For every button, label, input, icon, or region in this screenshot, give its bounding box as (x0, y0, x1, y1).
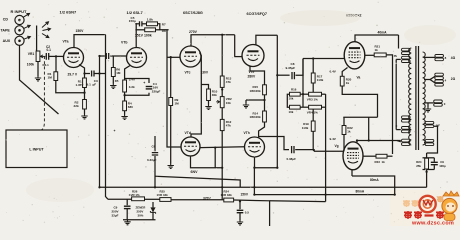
wire bias chain from rail (221, 35, 223, 76)
wire AUX shield down-diagonal (20, 45, 59, 114)
svg-text:150V: 150V (76, 29, 85, 33)
svg-text:Vg: Vg (335, 144, 339, 148)
wire C3 to vertical feeds (95, 73, 106, 75)
connector primary P5 (402, 139, 411, 142)
svg-text:40mA: 40mA (378, 30, 388, 34)
svg-text:C: C (396, 124, 398, 128)
resistor R25 1W 33k (224, 198, 234, 202)
resistor R3 cathode 3.3k (123, 80, 127, 92)
wire VTd cathode coupling to VTh grid (201, 146, 245, 149)
wire R19 to C7 node (312, 131, 314, 150)
svg-text:1k: 1k (382, 160, 386, 164)
svg-text:6CG7/6FQ7: 6CG7/6FQ7 (247, 12, 267, 16)
potentiometer VR2 10k (220, 97, 224, 108)
svg-text:R16: R16 (291, 88, 297, 92)
wire VTe grid (234, 56, 242, 58)
wire VTh cathode to node (254, 157, 256, 168)
zener diode 250V (152, 202, 154, 207)
ground below R9 (168, 164, 174, 169)
tube VTh triode lower driver (245, 137, 265, 157)
svg-text:33µF: 33µF (112, 214, 119, 218)
trimmer VR3 1% row1 right (309, 92, 322, 96)
wire divider feed column (325, 94, 327, 202)
capacitor C10 33uF 250V filter (126, 199, 128, 205)
wire B+ drop to primary (398, 35, 400, 49)
watermark logo circle (419, 196, 435, 212)
ground VTe divider (245, 100, 247, 103)
svg-text:0.4V: 0.4V (330, 69, 337, 73)
resistor R17 110k (312, 59, 314, 74)
svg-text:1k: 1k (346, 81, 350, 85)
svg-text:1/2 6SL7: 1/2 6SL7 (127, 10, 144, 15)
resistor R8 100k plate (145, 28, 156, 32)
svg-text:R INPUT: R INPUT (11, 9, 28, 14)
wire VTh grid branch down (214, 148, 216, 168)
wire NFB long bus (100, 186, 427, 188)
tube VTb triode (127, 48, 147, 68)
resistor R7 feedback (142, 23, 146, 25)
tube VTc triode (180, 46, 201, 67)
potentiometer VR1 100k (36, 51, 40, 62)
resistor R12 47k (220, 119, 224, 130)
ground below C11 (237, 220, 243, 225)
svg-text:0.38µF: 0.38µF (287, 157, 297, 161)
wire VTa plate to 150V rail (74, 35, 106, 48)
svg-text:2Ω: 2Ω (451, 77, 456, 81)
svg-text:VTa: VTa (63, 40, 69, 44)
wire VR2 to R12 (221, 108, 223, 120)
svg-text:3.3k: 3.3k (129, 85, 135, 89)
secondary tap 0 common (424, 102, 434, 104)
svg-text:1VR 1%: 1VR 1% (129, 193, 140, 197)
wire VTb grid line with C4 (100, 55, 105, 57)
wire R1 to R2 (84, 88, 86, 100)
wire R17 to divider row1 (312, 83, 314, 92)
wire VTd cathode to bias node (191, 156, 223, 168)
wire rail R26-R24 (145, 198, 160, 200)
svg-text:6SC7/6J8G: 6SC7/6J8G (183, 11, 203, 15)
watermark text weiku yixia (403, 200, 410, 207)
resistor R9 1M (170, 57, 172, 97)
transformer T1 core (415, 46, 417, 150)
svg-text:VTh: VTh (244, 131, 250, 135)
junction dots (221, 34, 223, 36)
svg-text:100k: 100k (27, 63, 35, 67)
ground below R2 (81, 114, 87, 119)
wire R10 tap (201, 85, 208, 90)
wire VTg cathode sense loop (351, 170, 353, 176)
wire top rail 270V segment (191, 34, 235, 36)
jack AUX (15, 36, 24, 45)
wire ground bus bottom (123, 219, 156, 221)
tube VTa triode (64, 48, 84, 68)
svg-text:+: + (114, 129, 116, 133)
wire feed column x303 (302, 59, 304, 108)
svg-text:150V: 150V (241, 192, 249, 196)
svg-text:L INPUT: L INPUT (29, 148, 44, 152)
svg-text:30%: 30% (138, 214, 144, 218)
resistor R19 110k (312, 109, 314, 121)
wire VTe grid drop from rail end (234, 35, 236, 57)
svg-text:0.1: 0.1 (47, 48, 52, 52)
svg-text:0.5: 0.5 (245, 210, 250, 214)
svg-text:C6: C6 (152, 145, 156, 149)
resistor R4 680 (123, 101, 127, 111)
connector primary P4 (402, 127, 411, 130)
svg-text:110k: 110k (317, 78, 324, 82)
resistor R14 1W 100k (263, 111, 267, 122)
svg-text:270V: 270V (189, 30, 198, 34)
svg-text:R23: R23 (375, 160, 381, 164)
wire rail right section (234, 200, 270, 226)
wire tube2 grid line (314, 150, 344, 152)
wire R4 to ground (124, 111, 126, 115)
svg-text:VTb: VTb (121, 41, 127, 45)
wire vertical feed A to NFB bus (99, 56, 101, 187)
ground secondary common (427, 103, 429, 107)
ground below R10 (205, 105, 211, 110)
svg-text:VR1: VR1 (28, 52, 35, 56)
selector switch S1 contacts (42, 22, 49, 28)
resistor R15 1W 100k (263, 85, 267, 95)
wire supply rail 370V chain (108, 198, 132, 200)
svg-text:VR3 1%: VR3 1% (307, 97, 318, 101)
wire C6 down to NFB bus (154, 156, 156, 187)
svg-text:TAPE: TAPE (1, 29, 11, 33)
svg-text:R7: R7 (162, 22, 166, 26)
wire NFB slant segment (155, 176, 240, 187)
resistor R16 10k row1 left (290, 92, 301, 96)
svg-text:80mA: 80mA (370, 178, 379, 182)
svg-text:VTd: VTd (185, 131, 191, 135)
wire R2 to ground (84, 109, 86, 114)
svg-text:1VR 33k: 1VR 33k (221, 193, 233, 197)
resistor Rs1 1k screen (374, 53, 386, 57)
tube VTf 6550 upper (344, 42, 365, 69)
box L INPUT channel (6, 130, 67, 168)
wire VTf cathode to R21 (342, 68, 347, 77)
resistor R26 1W 1k (132, 197, 145, 201)
svg-text:151V 100k: 151V 100k (135, 34, 152, 38)
svg-text:1W100k: 1W100k (250, 89, 262, 93)
svg-text:Pb: Pb (394, 54, 398, 58)
svg-text:1.35V: 1.35V (76, 83, 84, 87)
wire rail stub up to divider feed (270, 200, 326, 203)
wire drop to plate line (368, 117, 370, 140)
wire VTf plate to top (355, 35, 399, 42)
scan smudges (280, 10, 360, 26)
wire ladder left link (287, 94, 289, 107)
svg-text:6NV: 6NV (191, 170, 199, 174)
resistor R2 22k (83, 100, 87, 110)
capacitor C5 150p (135, 23, 139, 25)
transformer T1 secondary winding (423, 52, 426, 145)
svg-text:R5: R5 (115, 79, 119, 83)
wire VTa cathode (79, 65, 85, 79)
resistor R24f 25k NFB (426, 153, 428, 158)
resistor R1 cathode (83, 78, 87, 88)
wire cathode to C3 (85, 73, 91, 75)
secondary lower tap (425, 139, 434, 142)
svg-text:1W100k: 1W100k (250, 115, 262, 119)
wire NFB tap down (427, 126, 438, 153)
capacitor C3 9.1uF cathode bypass (92, 71, 94, 77)
svg-text:9.4V: 9.4V (330, 137, 337, 141)
wire R12 down to 370V rail (221, 131, 223, 200)
resistor Rg1 1M grid (55, 56, 57, 71)
ground below R4 (121, 115, 127, 120)
svg-text:680: 680 (128, 105, 133, 109)
capacitor C7 0.38uF (292, 146, 294, 153)
jack CD (15, 15, 24, 24)
trimmer VR4 1% row2 right (309, 105, 322, 109)
wire node down to screen bus (253, 168, 255, 195)
resistor R23 screen lower (363, 155, 376, 157)
wire screen resistor R-s1 (365, 54, 374, 56)
svg-text:30k: 30k (212, 93, 217, 97)
svg-text:10k: 10k (289, 110, 294, 114)
svg-text:1.8k: 1.8k (147, 18, 153, 22)
svg-text:1/2 6SN7: 1/2 6SN7 (60, 10, 77, 15)
wire VTe plate arch to column (256, 35, 277, 45)
resistor R21 10 cathode sense (340, 76, 344, 86)
wire stage2 out down to VTd grid (167, 30, 181, 147)
wire tube1 grid line (303, 58, 344, 60)
wire rail R24-R25 (171, 199, 224, 201)
svg-text:AUX: AUX (3, 39, 11, 43)
secondary tap 16 ohm (424, 56, 435, 58)
wire NFB network to buses (423, 169, 435, 171)
svg-text:220µF: 220µF (152, 89, 161, 93)
svg-text:110k: 110k (302, 126, 309, 130)
tube VTd triode (181, 137, 200, 156)
svg-text:150p: 150p (129, 19, 136, 23)
svg-text:370V: 370V (203, 196, 212, 200)
wire selector common to VR1 (36, 26, 38, 52)
wire screen bus (254, 194, 394, 196)
svg-text:VTc: VTc (185, 71, 191, 75)
svg-text:1k: 1k (375, 48, 379, 52)
wire VR1 bottom (37, 62, 39, 77)
wire R9 down to ground (170, 106, 172, 164)
svg-text:47k: 47k (226, 80, 231, 84)
connector primary P1 (402, 48, 411, 51)
svg-text:1M: 1M (175, 101, 180, 105)
svg-text:1M: 1M (116, 71, 121, 75)
ground bottom filter (124, 220, 130, 225)
svg-text:10k: 10k (226, 101, 231, 105)
svg-text:R2-1: R2-1 (43, 63, 50, 67)
svg-text:22k: 22k (74, 104, 79, 108)
tube VTe triode (242, 45, 264, 67)
svg-text:1M: 1M (48, 76, 53, 80)
resistor R24 1W 43k (160, 198, 171, 202)
svg-text:29.7 V: 29.7 V (68, 72, 78, 76)
svg-text:C8: C8 (291, 62, 295, 66)
wire R13 to VR2 (221, 87, 223, 96)
tube VTg 6550 lower (343, 142, 363, 170)
watermark mascot (443, 191, 459, 196)
svg-text:VR4 1%: VR4 1% (307, 110, 318, 114)
wire VTc cathode down to VTd plate (191, 53, 201, 138)
wire R10 to ground (208, 101, 210, 105)
svg-text:R8: R8 (162, 29, 166, 33)
svg-text:CD: CD (3, 17, 9, 21)
svg-text:47k: 47k (226, 124, 231, 128)
wire VTb cathode chain (125, 66, 130, 81)
ground VR1 (35, 76, 41, 81)
svg-text:280V: 280V (248, 75, 257, 79)
svg-text:10k: 10k (289, 97, 294, 101)
wire R3 to R4 junction (124, 92, 126, 101)
wire screen link line (343, 116, 377, 118)
wire lower node horizontal (254, 167, 277, 169)
wire C7 to grid node (295, 149, 314, 151)
wire VTc grid tap (167, 56, 180, 58)
svg-text:4Ω: 4Ω (451, 56, 456, 60)
connector primary P3 (402, 116, 411, 119)
resistor R6 1M grid leak (112, 56, 114, 68)
wire stage2 network right node (158, 24, 169, 30)
resistor R22 1k grid2 (342, 126, 346, 135)
secondary NFB tap (425, 121, 434, 124)
wire VTe cathode to R15 (250, 66, 265, 85)
resistor R13 47k (220, 76, 224, 87)
ganged dashed link to L channel (41, 56, 44, 130)
ground below R6 (112, 77, 114, 84)
wire R21 zigzag down (342, 86, 377, 117)
electrolytic C4 220uF bypass (125, 93, 149, 95)
wire VTh plate tap to C7 (259, 137, 289, 150)
wire Rg1 to cathode return (56, 81, 85, 93)
secondary tap 8 ohm (424, 76, 435, 79)
wire VTc plate to rail (190, 35, 192, 46)
svg-text:1k: 1k (347, 130, 351, 134)
wire VTg plate line to primary (357, 140, 401, 142)
connector primary P2 (402, 56, 411, 59)
wire C8 riser to grid line (296, 59, 304, 76)
capacitor C6 0.33uF (154, 136, 156, 151)
svg-text:80mA: 80mA (356, 190, 365, 194)
wire stage4 plate column (276, 35, 278, 168)
svg-text:25k: 25k (416, 164, 421, 168)
svg-text:µF: µF (93, 83, 97, 87)
svg-text:9.35µF: 9.35µF (286, 66, 296, 70)
capacitor C8 9.35uF (292, 72, 294, 79)
wire R14 down to VTh plate (259, 122, 265, 137)
svg-text:www.dzsc.com: www.dzsc.com (411, 221, 454, 226)
wire C2 to VTa grid (49, 55, 64, 57)
resistor R10 30k (207, 89, 211, 101)
jack TAPE (15, 26, 24, 35)
svg-text:9.1: 9.1 (87, 83, 92, 87)
capacitor C9 100p NFB (431, 162, 438, 164)
wire vertical feed to lower supply rail (106, 35, 109, 200)
svg-text:+: + (143, 81, 145, 85)
resistor R18 10k row2 left (290, 105, 301, 109)
capacitor C2 0.1uF coupling (44, 55, 47, 57)
wire C8 branch (277, 74, 289, 76)
wire R15 to R14 (264, 95, 266, 111)
capacitor C11 filter second (239, 202, 241, 209)
svg-text:100p: 100p (439, 164, 446, 168)
svg-text:1VR 43k: 1VR 43k (157, 193, 169, 197)
transformer T1 primary winding (409, 48, 412, 145)
wire Rs1 right to vertical (386, 55, 392, 154)
wire VTb plate to network (134, 24, 137, 48)
